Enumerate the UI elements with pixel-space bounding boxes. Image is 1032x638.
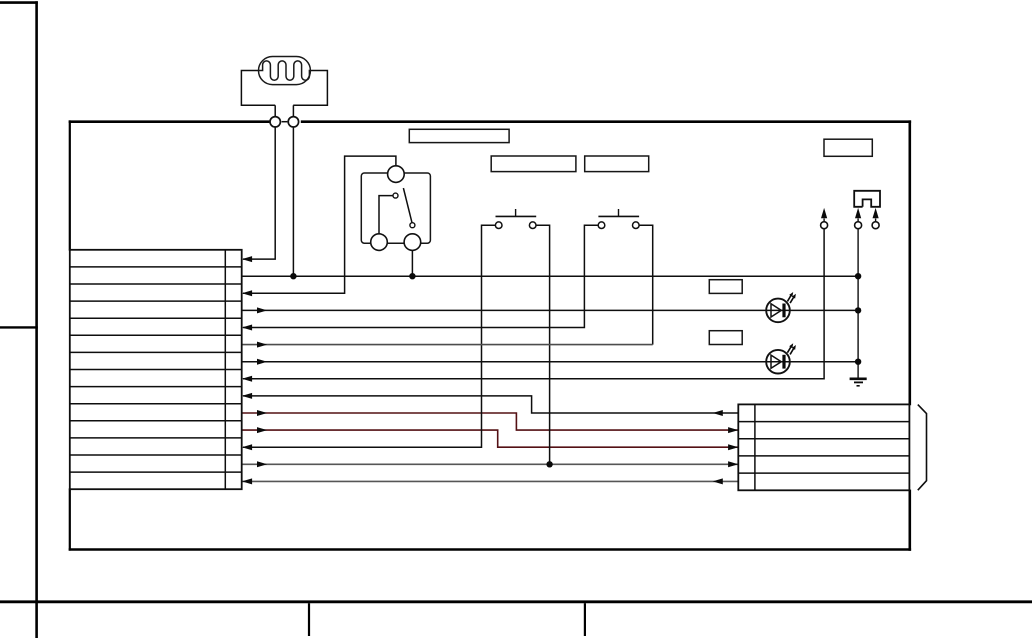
label box C <box>585 156 649 172</box>
junction row2-T2 <box>855 273 861 279</box>
push switch SW1 stem <box>515 209 517 216</box>
switch contact B1 <box>388 166 405 183</box>
ECU box bottom edge <box>69 548 911 551</box>
switch body <box>361 173 430 243</box>
junction SW1-row13 <box>546 461 552 467</box>
label box F <box>709 331 742 345</box>
terminal T2 arrow <box>855 208 861 218</box>
wire row2 bus <box>242 275 858 277</box>
wire row4 <box>242 309 858 311</box>
arrow row11 into right connector <box>728 444 738 450</box>
arrow row10 into right connector <box>728 427 738 433</box>
wire terminal1 to row1 <box>243 127 275 259</box>
LED D1 <box>766 292 796 322</box>
arrow row10 out <box>257 410 267 416</box>
wire row14 gray <box>242 480 739 482</box>
jumper staple <box>854 191 880 207</box>
wire row9 jog to right connector <box>243 396 738 413</box>
terminal T1 arrow <box>821 208 827 218</box>
title block top line <box>0 600 1032 603</box>
wire row11 red jog <box>242 430 739 447</box>
SW2 right wire down <box>636 225 653 344</box>
heater terminal stub left <box>274 105 276 117</box>
arrow row6 out <box>257 342 267 348</box>
arrow row7 out <box>257 359 267 365</box>
page frame left border <box>35 1 38 638</box>
SW2 terminal left <box>598 222 605 229</box>
label box B <box>491 156 576 172</box>
arrow row13 into right connector <box>728 461 738 467</box>
switch small contact 1 <box>393 193 398 198</box>
title block divider 1 <box>308 603 310 636</box>
right connector <box>738 404 909 490</box>
switch small contact 2 <box>410 223 415 228</box>
LED D2 <box>766 343 796 373</box>
SW1 left wire to row12 <box>243 225 496 447</box>
wire row13 gray <box>242 463 739 465</box>
switch output wire to row2 <box>411 250 413 276</box>
wire row7 <box>242 361 858 363</box>
push switch SW2 stem <box>618 209 620 216</box>
ECU box left edge upper <box>69 120 71 250</box>
ECU box top edge right part <box>301 120 911 123</box>
SW2 left wire to row5 <box>243 225 598 327</box>
ground bar 2 <box>854 381 863 383</box>
heater housing box <box>241 71 327 106</box>
terminal T1 stem <box>823 219 825 223</box>
switch contact B3 <box>404 234 421 251</box>
switch wire contact1 to B2 <box>379 196 393 234</box>
terminal T3 arrow <box>873 208 879 218</box>
SW2 terminal right <box>633 222 640 229</box>
junction terminal2-row2 <box>290 273 296 279</box>
push switch SW1 bar <box>496 215 537 217</box>
heating coil <box>259 61 311 80</box>
label box D <box>824 139 872 156</box>
arrow row1 into connector <box>242 256 252 262</box>
label box E <box>709 280 742 294</box>
arrow row9 from right connector <box>713 410 723 416</box>
terminal T2 stem <box>857 219 859 223</box>
title block divider 2 <box>584 603 586 636</box>
ground bar 3 <box>857 385 860 387</box>
wire row10 red jog <box>242 413 739 430</box>
arrow row3 into connector <box>242 290 252 296</box>
SW1 terminal right <box>529 222 536 229</box>
switch feed wire to row3 <box>243 156 396 293</box>
terminal T2 circle <box>855 222 862 229</box>
wire terminal2 down <box>292 127 294 276</box>
switch contact B2 <box>371 234 388 251</box>
heating element body <box>259 57 311 85</box>
SW1 right wire to row13 <box>536 225 550 464</box>
arrow row4 out <box>257 307 267 313</box>
label box A <box>409 129 509 142</box>
terminal circle left <box>270 117 280 127</box>
arrow row11 out <box>257 427 267 433</box>
dash between terminals <box>282 121 288 123</box>
ECU box right edge lower <box>908 490 911 551</box>
ECU box left edge lower <box>69 488 71 550</box>
terminal T3 stem <box>875 219 877 223</box>
heater terminal stub right <box>292 105 294 117</box>
terminal T3 circle <box>872 222 879 229</box>
terminal circle right <box>288 117 298 127</box>
arrow row14 from right connector <box>713 478 723 484</box>
arrow row13 out <box>257 461 267 467</box>
ECU box right edge upper <box>908 120 911 405</box>
junction row7-T2 <box>855 359 861 365</box>
page frame top edge <box>0 1 38 4</box>
ground bar 1 <box>850 377 867 380</box>
arrow row5 into connector <box>242 325 252 331</box>
terminal T1 circle <box>821 222 828 229</box>
arrow row14 into connector <box>242 478 252 484</box>
junction switch-row2 <box>409 273 415 279</box>
arrow row12 into connector <box>242 444 252 450</box>
wire row6 gray <box>242 344 653 346</box>
SW1 terminal left <box>495 222 502 229</box>
right connector bracket <box>918 405 927 491</box>
left ECU connector <box>70 250 242 489</box>
terminal T2 wire down <box>857 228 859 378</box>
arrow row8 into connector <box>242 376 252 382</box>
push switch SW2 bar <box>598 215 639 217</box>
wire row8 to terminal <box>243 228 824 378</box>
ECU box top edge <box>69 120 270 123</box>
arrow row9 into connector <box>242 393 252 399</box>
switch lever <box>403 188 412 223</box>
frame fold tick <box>0 326 38 328</box>
junction row4-T2 <box>855 307 861 313</box>
